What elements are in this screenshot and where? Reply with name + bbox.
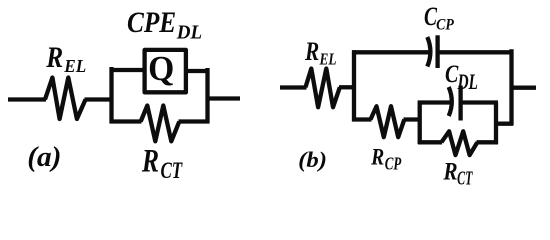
wire: circuit (a) output lead xyxy=(208,96,240,100)
wire: bottom branch from big left vertical (b) xyxy=(352,117,372,121)
svg-text:(a): (a) xyxy=(27,141,61,172)
wire: inner bottom branch left segment (b) xyxy=(418,140,442,144)
capacitor C1 C_CP: straight right plate xyxy=(435,35,439,68)
resistor R2 R_CT (a) zigzag xyxy=(141,106,180,142)
capacitor C1 C_CP: curved left plate xyxy=(427,37,430,67)
resistor R1 R_EL (a) zigzag xyxy=(45,78,86,120)
svg-text:DL: DL xyxy=(176,21,202,44)
wire: inner top branch to C_DL left plate (b) xyxy=(418,100,451,104)
CPE element U1: box outline xyxy=(145,50,186,92)
resistor R3 R_EL (b) zigzag xyxy=(306,69,340,108)
wire: inner block left vertical (b) xyxy=(418,101,422,145)
wire: bottom branch right segment (a) xyxy=(179,119,210,123)
wire: stub from inner right vertical to big right vertical (b) xyxy=(494,122,513,126)
svg-text:EL: EL xyxy=(319,51,337,69)
wire: C_CP to big right vertical (b) xyxy=(438,50,513,54)
wire: R_CP to inner block left vertical (b) xyxy=(404,117,422,121)
wire: circuit (b) output lead xyxy=(512,86,537,90)
wire: right vertical of parallel block (a) xyxy=(205,68,209,124)
svg-text:EL: EL xyxy=(63,56,86,76)
svg-text:CP: CP xyxy=(436,17,454,34)
wire: circuit (a) input lead xyxy=(8,97,46,101)
wire: C_DL to inner right vertical (b) xyxy=(461,100,498,104)
wire: circuit (b) input lead xyxy=(280,85,307,89)
svg-text:DL: DL xyxy=(457,71,478,95)
wire: R_EL to parallel block (a) xyxy=(85,97,114,101)
wire: inner block right vertical (b) xyxy=(494,103,498,145)
wire: top branch left stub to CPE box (a) xyxy=(110,68,146,72)
wire: big block right vertical (b) xyxy=(509,49,513,125)
svg-text:CT: CT xyxy=(457,166,473,189)
svg-text:CP: CP xyxy=(385,154,402,174)
wire: CPE box to right vertical (a) xyxy=(185,69,209,73)
svg-text:R: R xyxy=(141,144,159,180)
svg-text:R: R xyxy=(442,158,457,186)
svg-text:R: R xyxy=(370,144,384,170)
capacitor C2 C_DL: curved left plate xyxy=(449,87,452,116)
resistor R4 R_CP (b) zigzag xyxy=(371,106,405,137)
wire: top branch to C_CP left plate (b) xyxy=(352,50,430,54)
resistor R5 R_CT (b) zigzag xyxy=(441,131,477,155)
svg-text:CT: CT xyxy=(160,158,182,183)
wire: inner bottom branch right segment (b) xyxy=(477,140,499,144)
svg-text:R: R xyxy=(304,38,319,66)
svg-text:Q: Q xyxy=(148,49,174,88)
wire: bottom branch left segment (a) xyxy=(110,119,142,123)
svg-text:CPE: CPE xyxy=(127,5,176,38)
capacitor C2 C_DL: straight right plate xyxy=(458,86,462,121)
wire: left vertical of parallel block (a) xyxy=(109,67,113,124)
svg-text:(b): (b) xyxy=(298,148,327,172)
svg-text:R: R xyxy=(45,40,63,73)
wire: big block left vertical (b) xyxy=(352,50,356,121)
wire: R_EL to big block (b) xyxy=(339,85,355,89)
